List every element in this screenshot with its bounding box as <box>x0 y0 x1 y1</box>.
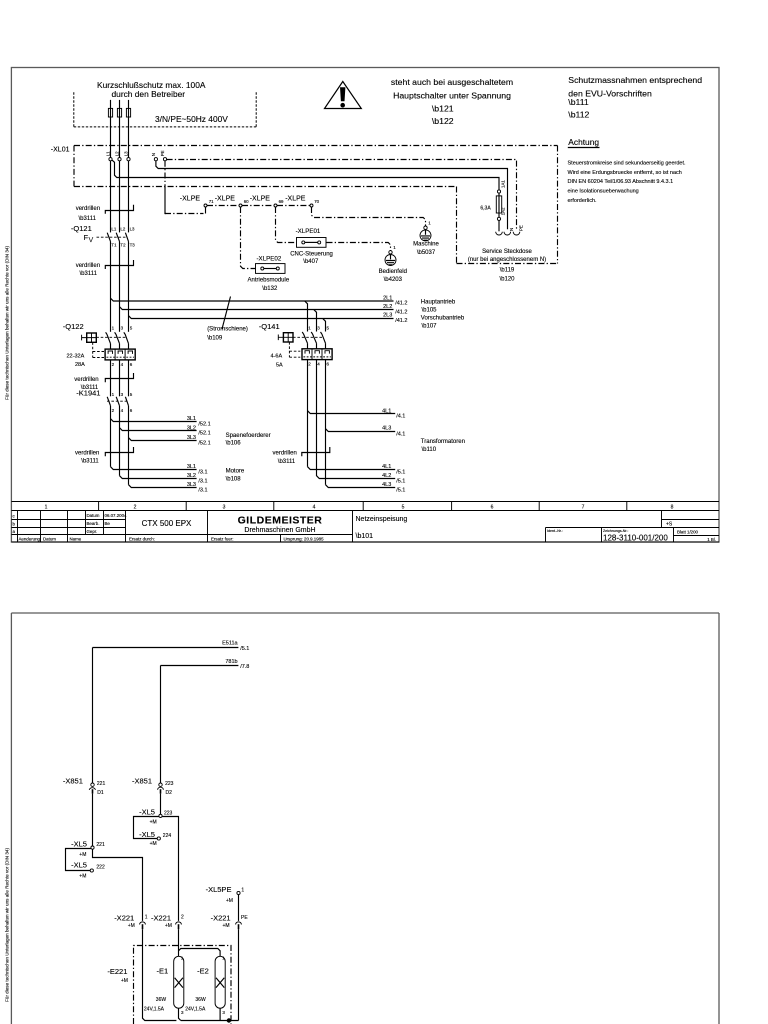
wire XLPE 69-70 <box>277 205 310 207</box>
label 22-32A 28A <box>67 353 86 367</box>
svg-text:Blatt 1/200: Blatt 1/200 <box>677 530 699 535</box>
terminal XL01 PE <box>160 150 167 160</box>
svg-text:Transformatoren: Transformatoren <box>421 439 465 445</box>
wire XLPE 60-69 <box>242 205 274 207</box>
breaker Q122 pole 2 <box>115 326 124 350</box>
svg-text:-X221: -X221 <box>151 914 171 923</box>
twisted wires marker 2 <box>105 260 133 269</box>
svg-text:223: 223 <box>165 781 174 787</box>
svg-text:\b112: \b112 <box>568 110 589 120</box>
wire Q141 down 1 <box>307 360 309 467</box>
svg-text:4L1: 4L1 <box>382 464 391 470</box>
svg-text:Ersatz durch:: Ersatz durch: <box>129 537 155 542</box>
svg-text:Antriebsmodule: Antriebsmodule <box>248 278 290 284</box>
breaker Q122 pole 3 <box>124 326 133 350</box>
contactor K1941 pole 2 <box>116 392 123 413</box>
svg-text:/3.1: /3.1 <box>198 470 207 476</box>
svg-text:-XLPE: -XLPE <box>250 195 271 202</box>
lamp E2 <box>185 956 225 1016</box>
connector X851 D2 <box>132 776 174 796</box>
svg-text:Ursprung: 20.9.1985: Ursprung: 20.9.1985 <box>284 537 325 542</box>
connector X851 D1 <box>63 776 106 796</box>
svg-text:/3.1: /3.1 <box>198 479 207 485</box>
wire K1941 down L2 <box>119 406 121 476</box>
wire XLPE 71-60 <box>207 205 239 207</box>
svg-text:-XLPE: -XLPE <box>285 195 306 202</box>
svg-text:verdrillen: verdrillen <box>273 451 297 457</box>
svg-text:T1: T1 <box>111 243 117 248</box>
svg-text:-X221: -X221 <box>211 914 231 923</box>
svg-text:5A: 5A <box>276 362 283 368</box>
enclosure E221 dash-dot box <box>134 946 232 1024</box>
svg-text:/4.1: /4.1 <box>396 432 405 438</box>
label 3L3 3.1 <box>187 482 208 494</box>
jumper XL5 221-222 <box>66 849 91 871</box>
svg-text:4-6A: 4-6A <box>271 353 283 359</box>
svg-text:2: 2 <box>181 915 184 921</box>
svg-text:70: 70 <box>314 199 319 204</box>
earth Maschine <box>413 221 439 256</box>
terminal XL5 222 <box>71 861 105 880</box>
svg-text:\b111: \b111 <box>568 97 589 107</box>
label 4L1 4.1 <box>382 408 405 419</box>
wire XL5 223 to X221 pin2 <box>162 817 178 921</box>
Q141 lower pins <box>308 362 329 367</box>
wire 3L2 tap 52.1 <box>120 428 197 431</box>
svg-text:\b109: \b109 <box>207 335 223 341</box>
wire L2 Q122 to K1941 <box>119 360 121 396</box>
Q122 lower pins <box>112 362 133 367</box>
svg-text:/5.1: /5.1 <box>240 646 249 652</box>
svg-text:06.07.2004: 06.07.2004 <box>105 513 128 518</box>
svg-text:6,3A: 6,3A <box>480 206 491 212</box>
svg-text:/4.1: /4.1 <box>396 414 405 420</box>
wire 3L2 end 3.1 <box>120 476 197 479</box>
wire L1 Q122 to K1941 <box>110 360 112 396</box>
svg-text:4: 4 <box>313 505 316 511</box>
wire PE drop to XLPE chain (dash-dot) <box>165 161 204 214</box>
contactor K1941 pole 3 <box>125 392 132 413</box>
label E511a <box>222 641 249 652</box>
connector X221 pin2 <box>151 914 184 930</box>
svg-text:-XL5: -XL5 <box>139 830 155 839</box>
wire 4L1 end 5.1 <box>308 467 396 470</box>
svg-text:verdrillen: verdrillen <box>76 263 100 269</box>
svg-text:/52.1: /52.1 <box>198 441 210 447</box>
svg-text:5: 5 <box>402 505 405 511</box>
wire branch to E2 top <box>179 949 221 957</box>
svg-text:1A2: 1A2 <box>500 207 505 215</box>
svg-text:/5.1: /5.1 <box>396 470 405 476</box>
wire L3 down to Q121 <box>128 161 130 233</box>
svg-text:28A: 28A <box>75 362 85 368</box>
svg-text:\b3111: \b3111 <box>278 459 296 465</box>
svg-text:L2: L2 <box>120 226 125 231</box>
terminal XL01 L2 <box>114 151 121 161</box>
svg-text:\b121: \b121 <box>432 104 454 114</box>
svg-text:Achtung: Achtung <box>568 137 599 147</box>
svg-text:\b4203: \b4203 <box>384 277 403 283</box>
wire 2L2 to Q141 pole2 <box>314 310 317 332</box>
terminal XL5 224 <box>139 830 171 847</box>
label 2L2 <box>383 304 407 315</box>
svg-text:7: 7 <box>582 505 585 511</box>
svg-text:-Q122: -Q122 <box>63 322 84 331</box>
svg-text:verdrillen: verdrillen <box>75 451 99 457</box>
svg-text:Datum: Datum <box>87 513 100 518</box>
wire X851 D1 to XL5 221 <box>92 794 94 846</box>
breaker Q122 linkage <box>93 337 127 357</box>
svg-text:/52.1: /52.1 <box>198 422 210 428</box>
svg-text:\b122: \b122 <box>432 116 454 126</box>
label 2L3 <box>383 313 407 324</box>
note Achtung body <box>568 160 686 204</box>
svg-text:durch den Betreiber: durch den Betreiber <box>112 89 186 99</box>
svg-text:(Stromschiene): (Stromschiene) <box>207 327 248 333</box>
svg-text:24V,1.5A: 24V,1.5A <box>144 1006 165 1012</box>
svg-text:CTX 500 EPX: CTX 500 EPX <box>142 519 192 528</box>
svg-text:\b132: \b132 <box>262 286 278 292</box>
wire Q141 down 2 <box>316 360 318 476</box>
label 4L3 4.1 <box>382 426 405 438</box>
svg-text:69: 69 <box>279 199 284 204</box>
svg-text:/41.2: /41.2 <box>395 309 407 315</box>
svg-text:60: 60 <box>244 199 249 204</box>
svg-text:-XL5: -XL5 <box>139 807 155 816</box>
svg-text:T2: T2 <box>120 243 126 248</box>
wire 2L3 tap <box>129 316 394 319</box>
note Hauptantrieb <box>421 299 456 313</box>
svg-text:\b3111: \b3111 <box>80 271 98 277</box>
wire 3L3 end 3.1 <box>129 485 197 488</box>
svg-text:36W: 36W <box>195 997 206 1003</box>
svg-text:\b110: \b110 <box>422 447 437 453</box>
breaker Q141 pole 2 <box>311 326 320 349</box>
terminal XL01 L3 <box>124 151 131 161</box>
terminal XL5 223 <box>139 807 172 825</box>
breaker Q141 pole 1 <box>302 326 311 349</box>
wire XL5 221 to X221 pin1 <box>93 849 143 921</box>
label E221 <box>107 967 128 984</box>
wire 4L3 end 5.1 <box>326 485 396 488</box>
breaker Q121 pole 3 <box>125 226 135 247</box>
svg-text:-E2: -E2 <box>197 966 209 975</box>
svg-text:Aenderung: Aenderung <box>19 537 41 542</box>
svg-text:-E1: -E1 <box>157 966 169 975</box>
wire X221 pin2 to E1 top <box>178 929 180 956</box>
svg-text:Netzeinspeisung: Netzeinspeisung <box>356 516 408 523</box>
terminal XL5 221 <box>71 839 105 857</box>
label 4L2 5.1 <box>382 473 405 484</box>
terminal XLPE 60 <box>215 195 249 207</box>
svg-text:D1: D1 <box>97 790 104 796</box>
svg-text:verdrillen: verdrillen <box>74 377 98 383</box>
svg-text:/41.2: /41.2 <box>395 318 407 324</box>
label 781b <box>225 659 249 670</box>
svg-text:4L1: 4L1 <box>382 408 391 414</box>
svg-text:36W: 36W <box>156 997 167 1003</box>
svg-text:/5.1: /5.1 <box>396 479 405 485</box>
svg-text:2: 2 <box>134 505 137 511</box>
svg-text:222: 222 <box>96 865 105 871</box>
svg-text:/7.8: /7.8 <box>240 664 249 670</box>
wire XLPE01 to Bedienfeld earth <box>327 243 391 251</box>
earth Bedienfeld <box>379 245 407 283</box>
svg-text:4L2: 4L2 <box>382 473 391 479</box>
svg-text:3: 3 <box>223 505 226 511</box>
twisted wires marker 4 <box>105 447 133 456</box>
svg-text:3L2: 3L2 <box>187 425 196 431</box>
svg-text:-K1941: -K1941 <box>76 388 100 397</box>
svg-text:2L1: 2L1 <box>383 295 392 301</box>
svg-text:4L3: 4L3 <box>382 482 391 488</box>
svg-text:+M: +M <box>150 841 157 847</box>
wire 3L3 tap 52.1 <box>129 438 197 441</box>
wire Q141 down 3 <box>325 360 327 485</box>
breaker Q121 pole 1 <box>107 226 117 247</box>
lamp bottom rail <box>181 1020 239 1022</box>
svg-text:-Q121: -Q121 <box>71 224 92 233</box>
svg-text:-E221: -E221 <box>107 967 127 976</box>
svg-text:223: 223 <box>164 810 173 816</box>
wire 4L3 tap 4.1 <box>326 429 396 432</box>
svg-text:\b3111: \b3111 <box>79 216 97 222</box>
svg-text:Schutzmassnahmen entsprechend: Schutzmassnahmen entsprechend <box>568 75 702 85</box>
fuse F L3 <box>126 100 130 159</box>
svg-text:224: 224 <box>163 833 172 839</box>
svg-text:PE: PE <box>241 915 248 921</box>
overload block Q141 <box>302 349 332 360</box>
note Motore <box>226 468 245 482</box>
label 3L2 52.1 <box>187 425 211 436</box>
supply boundary dashed box <box>74 92 256 127</box>
svg-text:-XL5: -XL5 <box>71 839 87 848</box>
svg-text:⋁: ⋁ <box>88 236 94 243</box>
svg-text:Service Steckdose: Service Steckdose <box>482 249 532 255</box>
verdrillen note 4 <box>75 451 99 465</box>
svg-text:+M: +M <box>223 923 230 929</box>
terminal XLPE 70 <box>285 195 319 207</box>
svg-text:-Q141: -Q141 <box>259 322 280 331</box>
svg-text:\b120: \b120 <box>499 277 515 283</box>
wire E1 bottom to rail <box>179 1008 181 1020</box>
svg-text:(nur bei angeschlossenem N): (nur bei angeschlossenem N) <box>468 257 546 263</box>
wire 3L1 end 3.1 <box>111 467 197 470</box>
wire 4L1 tap 4.1 <box>308 411 396 414</box>
breaker Q121 linkage <box>97 236 127 238</box>
machine boundary dash-dot outline XL01 / service box <box>74 146 558 264</box>
svg-text:D2: D2 <box>166 790 173 796</box>
svg-text:2L2: 2L2 <box>383 304 392 310</box>
label 4L1 5.1 <box>382 464 405 476</box>
svg-text:\b101: \b101 <box>356 533 374 540</box>
svg-text:Motore: Motore <box>226 468 245 474</box>
svg-text:N: N <box>151 153 156 156</box>
label 3L3 52.1 <box>187 435 211 447</box>
wire N bus to socket <box>156 161 508 229</box>
wire down to X851 D2 <box>160 666 162 784</box>
svg-text:-XLPE02: -XLPE02 <box>257 256 282 263</box>
service socket fuse 1A1/1A2 <box>480 180 505 232</box>
svg-text:71: 71 <box>209 199 214 204</box>
twisted wires marker 5 <box>302 447 330 456</box>
svg-text:-XL5PE: -XL5PE <box>206 885 232 894</box>
wire XLPE69 to module XLPE01 <box>276 207 297 243</box>
svg-text:Datum: Datum <box>43 537 56 542</box>
svg-text:eine Isolationsueberwachung: eine Isolationsueberwachung <box>568 189 639 195</box>
fuse F L2 <box>117 100 121 159</box>
svg-text:Ersatz fuer:: Ersatz fuer: <box>211 537 233 542</box>
terminal XLPE 71 <box>180 195 214 207</box>
socket contact PE <box>513 225 523 235</box>
wire L3 Q122 to K1941 <box>128 360 130 396</box>
svg-text:Zeichnungs-Nr.:: Zeichnungs-Nr.: <box>603 529 628 533</box>
svg-text:1: 1 <box>241 888 244 894</box>
wire L2 down to Q121 <box>119 161 121 233</box>
svg-text:3L3: 3L3 <box>187 435 196 441</box>
svg-text:221: 221 <box>97 781 106 787</box>
wire 2L2 tap <box>120 307 394 310</box>
svg-text:221: 221 <box>96 842 105 848</box>
svg-text:/41.2: /41.2 <box>395 301 407 307</box>
connector X221 PE <box>211 914 249 930</box>
svg-text:-XL5: -XL5 <box>71 861 87 870</box>
svg-text:3L1: 3L1 <box>187 464 196 470</box>
wire L3 Q121 to Q122 <box>128 241 130 331</box>
svg-text:24V,1.5A: 24V,1.5A <box>185 1006 206 1012</box>
svg-text:\b119: \b119 <box>500 267 515 273</box>
wire E2 bottom to rail <box>219 1008 221 1020</box>
svg-text:-XLPE01: -XLPE01 <box>296 228 321 235</box>
svg-text:Hauptantrieb: Hauptantrieb <box>421 299 456 305</box>
twisted wires marker 3 <box>105 373 133 382</box>
svg-text:\b3111: \b3111 <box>81 458 99 464</box>
terminal XL5PE <box>206 885 245 904</box>
title block grid lines <box>11 502 719 543</box>
svg-text:L3: L3 <box>124 151 129 156</box>
svg-text:Für diese technischen Unterlag: Für diese technischen Unterlagen behalte… <box>5 246 10 400</box>
page 1 sheet frame <box>11 68 719 543</box>
svg-text:Spaenefoerderer: Spaenefoerderer <box>226 433 271 439</box>
contactor K1941 linkage <box>107 400 127 402</box>
svg-text:Drehmaschinen GmbH: Drehmaschinen GmbH <box>244 527 315 534</box>
svg-text:4L3: 4L3 <box>382 426 391 432</box>
svg-text:L2: L2 <box>114 151 119 156</box>
breaker Q122 pole 1 <box>106 326 115 350</box>
svg-text:-X221: -X221 <box>114 914 134 923</box>
wire K1941 down L1 <box>110 406 112 467</box>
svg-text:Bedienfeld: Bedienfeld <box>379 269 407 275</box>
wire 1A1 feed from L1 to service fuse <box>112 160 499 190</box>
svg-text:Wird eine Erdungsbruecke entfe: Wird eine Erdungsbruecke entfernt, so is… <box>568 170 682 176</box>
svg-text:3L2: 3L2 <box>187 473 196 479</box>
svg-text:\b407: \b407 <box>303 259 319 265</box>
breaker Q121 release F <box>84 233 94 243</box>
breaker Q141 actuator <box>278 333 293 342</box>
svg-text:erforderlich.: erforderlich. <box>568 198 598 204</box>
svg-text:Bearb.: Bearb. <box>87 521 100 526</box>
lamp E1 <box>144 956 184 1016</box>
svg-text:verdrillen: verdrillen <box>76 206 100 212</box>
svg-text:1 Bl.: 1 Bl. <box>707 537 716 542</box>
svg-text:-XLPE: -XLPE <box>215 195 236 202</box>
svg-text:3L1: 3L1 <box>187 416 196 422</box>
wire X221 pin1 to lamp rail <box>143 929 177 1020</box>
svg-text:\b105: \b105 <box>422 308 438 314</box>
svg-text:CNC-Steuerung: CNC-Steuerung <box>290 252 333 258</box>
contactor K1941 pole 1 <box>107 392 114 413</box>
svg-text:1: 1 <box>145 915 148 921</box>
label 3L1 52.1 <box>187 416 211 428</box>
note Spaenefoerderer <box>226 433 271 446</box>
svg-text:6: 6 <box>491 505 494 511</box>
socket contact N <box>504 228 514 235</box>
svg-text:Be: Be <box>105 521 111 526</box>
wire X851 D2 to XL5 223 <box>160 794 162 815</box>
wire L1 down to Q121 <box>110 161 112 233</box>
svg-text:Vorschubantrieb: Vorschubantrieb <box>421 315 465 321</box>
svg-text:8: 8 <box>671 505 674 511</box>
verdrillen note 3 <box>74 377 99 391</box>
svg-text:2L3: 2L3 <box>383 313 392 319</box>
svg-text:+M: +M <box>128 923 135 929</box>
svg-text:Maschine: Maschine <box>413 242 439 248</box>
socket contact L <box>496 232 503 235</box>
wire 4L2 end 5.1 <box>317 476 396 479</box>
verdrillen note 5 <box>273 451 297 465</box>
svg-text:128-3110-001/200: 128-3110-001/200 <box>603 534 668 543</box>
svg-text:DIN EN 60204 Teil1/06.93 Absch: DIN EN 60204 Teil1/06.93 Abschnitt 9.4.3… <box>568 179 674 185</box>
overload block Q122 <box>105 349 135 360</box>
svg-text:-X851: -X851 <box>132 776 152 785</box>
svg-text:N: N <box>509 228 514 231</box>
wire K1941 down L3 <box>128 406 130 485</box>
wire L2 Q121 to Q122 <box>119 241 121 331</box>
svg-text:+S: +S <box>666 522 673 528</box>
terminal XL01 N <box>151 153 158 161</box>
twisted wires marker 1 <box>105 205 133 214</box>
verdrillen note 1 <box>76 206 100 222</box>
wire 3L1 tap 52.1 <box>111 419 197 422</box>
svg-text:+M: +M <box>79 873 86 879</box>
module XLPE01 <box>290 228 333 265</box>
wire 781b <box>161 665 239 667</box>
svg-text:+M: +M <box>121 978 128 984</box>
note Transformatoren <box>421 439 465 453</box>
svg-text:+M: +M <box>79 852 86 858</box>
wire X221 PE down <box>238 929 240 1020</box>
svg-text:E511a: E511a <box>222 641 238 647</box>
breaker Q141 pole 3 <box>321 326 330 349</box>
svg-text:Hauptschalter unter Spannung: Hauptschalter unter Spannung <box>393 90 511 100</box>
svg-text:\b108: \b108 <box>226 477 242 483</box>
svg-text:3L3: 3L3 <box>187 482 196 488</box>
svg-text:L1: L1 <box>105 151 110 156</box>
jumper XL5 223-224 <box>134 817 159 839</box>
svg-text:/5.1: /5.1 <box>396 488 405 494</box>
svg-text:1A1: 1A1 <box>500 180 505 188</box>
svg-text:-XL01: -XL01 <box>51 146 70 153</box>
svg-text:\b5037: \b5037 <box>417 250 436 256</box>
label 4-6A 5A <box>271 353 284 368</box>
svg-text:/52.1: /52.1 <box>198 431 210 437</box>
svg-text:Steuerstromkreise sind sekund: Steuerstromkreise sind sekundaerseitig g… <box>568 160 686 166</box>
svg-text:-X851: -X851 <box>63 776 83 785</box>
wire E511a <box>93 647 239 649</box>
verdrillen note 2 <box>76 263 100 277</box>
wire PE bus to socket (dash-dot) <box>167 160 517 230</box>
svg-text:+M: +M <box>165 923 172 929</box>
